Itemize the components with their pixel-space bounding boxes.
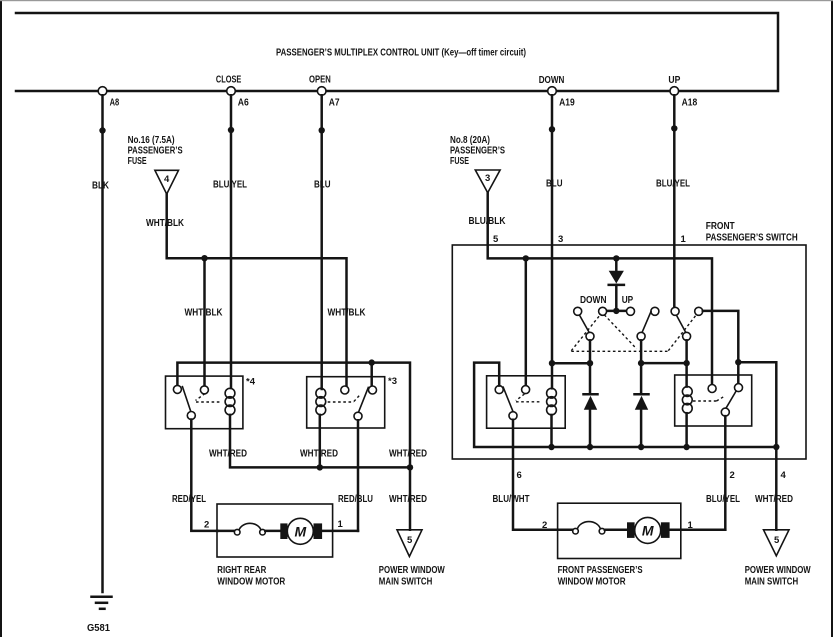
- wire connector to motor terminal: [605, 529, 628, 532]
- wire riser to relay *3 NO contact: [370, 363, 373, 387]
- left relay switch arm: [503, 386, 513, 411]
- junction coil *3 on bus: [317, 464, 323, 470]
- svg-text:UP: UP: [668, 75, 680, 86]
- wire A19 down (BLU) into switch: [551, 95, 554, 363]
- relay *3 contact top-middle: [341, 386, 349, 394]
- rocker lower contacts: [586, 332, 594, 340]
- svg-text:2: 2: [730, 470, 735, 481]
- left page border: [0, 0, 2, 637]
- relay *4 linkage dashes: [196, 394, 206, 401]
- svg-text:A19: A19: [559, 98, 575, 109]
- wire pin2 BLU/YEL to front passenger motor: [724, 416, 727, 530]
- svg-text:RED/BLU: RED/BLU: [338, 494, 373, 505]
- svg-text:WHT/RED: WHT/RED: [389, 494, 427, 505]
- left relay coil: [547, 388, 557, 398]
- svg-text:WINDOW MOTOR: WINDOW MOTOR: [558, 577, 627, 588]
- left relay contact top-left: [495, 386, 503, 394]
- svg-text:5: 5: [493, 234, 499, 245]
- svg-text:5: 5: [774, 535, 780, 546]
- svg-text:WHT/RED: WHT/RED: [389, 449, 427, 460]
- svg-text:BLU/YEL: BLU/YEL: [656, 179, 690, 190]
- svg-text:No.16 (7.5A): No.16 (7.5A): [128, 135, 175, 146]
- svg-text:BLU: BLU: [546, 179, 563, 190]
- svg-text:BLU/BLK: BLU/BLK: [469, 216, 507, 227]
- wire pin6 BLU/WHT to front passenger motor: [513, 420, 573, 530]
- svg-text:PASSENGER’S MULTIPLEX CONTROL: PASSENGER’S MULTIPLEX CONTROL UNIT (Key—…: [276, 48, 526, 59]
- right page border: [831, 0, 833, 637]
- svg-text:*4: *4: [246, 377, 256, 388]
- svg-text:MAIN SWITCH: MAIN SWITCH: [745, 577, 799, 588]
- connector pin A18: [670, 87, 679, 96]
- wire connector to motor terminal: [265, 530, 281, 533]
- left relay contact bottom: [509, 412, 517, 420]
- wire A19 rail into coil: [551, 363, 554, 388]
- svg-text:BLU: BLU: [314, 180, 331, 191]
- switch bus junction coil left: [548, 444, 554, 450]
- wire rocker mid lower contact down: [640, 340, 643, 363]
- svg-text:A7: A7: [329, 97, 340, 108]
- svg-text:MAIN SWITCH: MAIN SWITCH: [379, 577, 433, 588]
- wire to switch left relay top-middle contact: [525, 258, 528, 385]
- junction BLU/BLK to diode: [613, 255, 619, 261]
- junction right coil: [683, 360, 689, 366]
- motor M1 right terminal: [314, 523, 323, 539]
- wire A7 down (BLU) to relay *3 coil: [320, 95, 323, 389]
- relay *3 contact top-right: [369, 386, 377, 394]
- svg-text:FRONT: FRONT: [706, 221, 735, 232]
- right relay contact top-right: [735, 384, 743, 392]
- svg-text:WHT/RED: WHT/RED: [755, 494, 793, 505]
- svg-text:A18: A18: [682, 98, 698, 109]
- svg-text:PASSENGER’S SWITCH: PASSENGER’S SWITCH: [706, 232, 798, 243]
- svg-text:BLK: BLK: [92, 181, 110, 192]
- relay *4 switch arm: [182, 386, 191, 411]
- switch bus junction right coil: [683, 444, 689, 450]
- connector pin A19: [548, 87, 557, 96]
- wire common bus from relay *4 NO contact across to WHT/RED drop: [177, 363, 410, 468]
- relay *4 box: [166, 376, 243, 429]
- relay *4 coil: [225, 388, 235, 398]
- svg-text:UP: UP: [622, 295, 634, 306]
- junction A6 wire: [228, 127, 234, 133]
- connector pin A8: [98, 87, 107, 96]
- svg-text:3: 3: [485, 173, 490, 184]
- motor M2 left terminal: [627, 522, 635, 538]
- svg-text:A6: A6: [238, 97, 249, 108]
- connector pin A6: [227, 87, 236, 96]
- rocker linkage dashes: [571, 314, 601, 351]
- wire motor M2 pin1 to BLU/YEL: [670, 529, 726, 532]
- wire rail diode3 to coil (right relay): [641, 362, 687, 365]
- wire relay *3 coil bottom to bus: [319, 415, 322, 468]
- svg-text:WHT/BLK: WHT/BLK: [185, 308, 224, 319]
- front passenger's switch box: [452, 245, 806, 459]
- rocker arm DOWN: [579, 315, 589, 333]
- wire RED/YEL relay *4 to right rear motor: [191, 420, 217, 531]
- switch left relay box: [487, 376, 566, 428]
- svg-text:FUSE: FUSE: [450, 156, 469, 167]
- front passenger's window motor box: [558, 503, 681, 558]
- switch bus junction diode2: [587, 444, 593, 450]
- motor M2 circle: [635, 517, 661, 543]
- wire inside motor box left: [558, 529, 573, 532]
- svg-text:OPEN: OPEN: [309, 74, 331, 85]
- wire rocker UP lower contact down: [685, 340, 688, 363]
- relay *3 coil: [316, 388, 326, 398]
- inline connector (front motor): [573, 528, 579, 534]
- diode D1 (feeds rocker common): [615, 258, 618, 271]
- wire BLU/BLK from fuse 3 into switch: [488, 193, 712, 385]
- junction WHT/RED drop on bus: [407, 464, 413, 470]
- svg-text:M: M: [295, 524, 307, 540]
- wire right coil top: [685, 363, 688, 387]
- svg-text:PASSENGER’S: PASSENGER’S: [128, 145, 183, 156]
- right relay contact top-middle: [708, 385, 716, 393]
- diode D2: [589, 363, 592, 394]
- junction diode2 branch: [587, 360, 593, 366]
- svg-text:FUSE: FUSE: [128, 156, 147, 167]
- wire RED/BLU relay *3 to right rear motor: [357, 420, 360, 531]
- svg-text:DOWN: DOWN: [580, 295, 607, 306]
- junction A7 wire: [319, 127, 325, 133]
- junction BLU/BLK to left relay: [523, 255, 529, 261]
- wire WHT/BLK from fuse 4: [167, 194, 347, 386]
- svg-text:3: 3: [558, 234, 563, 245]
- rocker arm UP: [676, 315, 686, 333]
- junction WHT/BLK split: [201, 255, 207, 261]
- svg-text:DOWN: DOWN: [539, 75, 565, 86]
- svg-text:POWER WINDOW: POWER WINDOW: [379, 565, 445, 576]
- junction relay *3 NO contact riser: [369, 359, 375, 365]
- wire rocker DOWN lower contact down: [589, 340, 592, 363]
- svg-text:1: 1: [338, 519, 344, 530]
- wire left relay NO contact loop to bus: [474, 363, 776, 447]
- ground G581: [92, 596, 112, 599]
- svg-text:POWER WINDOW: POWER WINDOW: [745, 565, 811, 576]
- svg-text:4: 4: [164, 174, 170, 185]
- rocker common bar: [607, 310, 627, 313]
- svg-text:*3: *3: [388, 376, 397, 387]
- wire rail A19 to diode2 branch: [552, 362, 590, 365]
- left relay contact top-middle: [522, 386, 530, 394]
- junction A19 wire: [549, 126, 555, 132]
- wire A8 to ground (BLK): [101, 95, 104, 592]
- relay *3 contact bottom: [354, 412, 362, 420]
- connector triangle 4 (from fuse No.16): [155, 170, 179, 194]
- svg-text:5: 5: [407, 535, 413, 546]
- switch right relay box: [675, 375, 752, 426]
- wire right coil bottom to bus: [685, 413, 688, 447]
- inline connector (right rear motor): [234, 529, 240, 535]
- right relay coil: [682, 387, 692, 397]
- relay *3 linkage dashes: [328, 401, 354, 403]
- junction A8 wire: [99, 127, 105, 133]
- connector triangle 5 (right, power window main switch): [764, 530, 790, 556]
- junction diode3 branch: [638, 360, 644, 366]
- control unit U1 box: PASSENGER'S MULTIPLEX CONTROL UNIT: [16, 13, 778, 91]
- right relay linkage dashes: [693, 400, 717, 402]
- rocker upper contacts: [574, 307, 582, 315]
- svg-text:BLU/YEL: BLU/YEL: [213, 180, 247, 191]
- right rear window motor box: [217, 504, 333, 557]
- connector pin A7: [317, 87, 326, 96]
- svg-text:6: 6: [517, 470, 522, 481]
- junction A18 wire: [671, 125, 677, 131]
- rocker arm middle: [642, 311, 651, 333]
- switch bus junction pin4: [773, 444, 779, 450]
- svg-text:A8: A8: [110, 97, 120, 108]
- svg-text:CLOSE: CLOSE: [216, 74, 242, 85]
- svg-text:WHT/BLK: WHT/BLK: [328, 308, 367, 319]
- relay *4 contact top-middle: [200, 386, 208, 394]
- wire A6 down (BLU/YEL) to relay *4 coil: [230, 95, 233, 388]
- svg-text:WINDOW MOTOR: WINDOW MOTOR: [217, 577, 286, 588]
- junction A19/coil/rail: [549, 360, 555, 366]
- motor M1 left terminal: [280, 523, 287, 539]
- svg-text:PASSENGER’S: PASSENGER’S: [450, 145, 505, 156]
- wire coil bottom to switch bus: [550, 415, 553, 447]
- top page edge: [0, 0, 833, 1]
- svg-text:2: 2: [542, 520, 547, 531]
- wire mid rail to pin 4 drop: [738, 362, 776, 447]
- svg-text:BLU/YEL: BLU/YEL: [706, 494, 740, 505]
- left relay linkage dashes: [516, 394, 525, 401]
- wire motor M1 pin1 to RED/BLU: [322, 530, 358, 533]
- relay *4 contact top-left: [173, 385, 181, 393]
- switch bus junction diode3: [638, 444, 644, 450]
- relay *3 box: [307, 377, 385, 428]
- wire WHT/RED down to main switch connector: [409, 467, 412, 529]
- rocker common node: [613, 308, 619, 314]
- svg-text:No.8 (20A): No.8 (20A): [450, 135, 490, 146]
- wire inside motor box (left): [217, 530, 235, 533]
- connector triangle 5 (left, power window main switch): [397, 530, 422, 557]
- wire relay *4 coil bottom to WHT/RED bus: [230, 415, 410, 468]
- svg-text:WHT/BLK: WHT/BLK: [146, 218, 185, 229]
- svg-text:BLU/WHT: BLU/WHT: [493, 494, 530, 505]
- relay *3 switch arm: [359, 387, 369, 413]
- motor M2 right terminal: [661, 522, 670, 538]
- motor M1 circle: [287, 518, 313, 544]
- svg-text:RED/YEL: RED/YEL: [172, 494, 206, 505]
- svg-text:1: 1: [681, 234, 687, 245]
- svg-text:4: 4: [781, 470, 787, 481]
- svg-text:RIGHT REAR: RIGHT REAR: [217, 565, 267, 576]
- svg-text:2: 2: [204, 520, 209, 531]
- junction mid rail right: [735, 359, 741, 365]
- wire A18 down (BLU/YEL) to UP contact: [673, 95, 676, 307]
- svg-text:M: M: [642, 523, 654, 539]
- wire WHT/BLK to relay *4: [203, 258, 206, 386]
- relay *4 contact bottom: [187, 412, 195, 420]
- wire pin4 WHT/RED to main switch: [775, 447, 778, 530]
- svg-text:WHT/RED: WHT/RED: [209, 449, 247, 460]
- right relay contact bottom: [721, 408, 729, 416]
- wire UP contact to relay (right): [703, 311, 739, 383]
- svg-text:FRONT PASSENGER’S: FRONT PASSENGER’S: [558, 565, 643, 576]
- connector triangle 3 (from fuse No.8): [475, 170, 500, 193]
- svg-text:G581: G581: [87, 623, 110, 634]
- right relay switch arm: [726, 391, 736, 408]
- diode D3: [640, 363, 643, 394]
